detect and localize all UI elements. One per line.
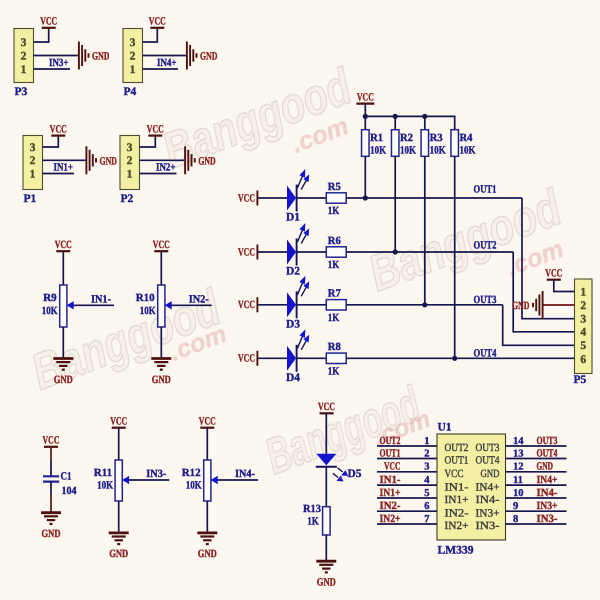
svg-text:3: 3	[580, 314, 586, 326]
wire P4 pin 3 to VCC	[143, 28, 158, 42]
resistor R1 10K	[362, 130, 387, 157]
LED D4	[286, 329, 309, 384]
svg-text:P4: P4	[124, 86, 137, 98]
wire U1 pin 1 (OUT2)	[377, 445, 437, 447]
svg-text:7: 7	[424, 514, 429, 525]
power symbol VCC (R12 top)	[199, 416, 216, 428]
svg-text:GND: GND	[42, 528, 61, 540]
ground symbol GND (P1)	[86, 146, 117, 174]
svg-text:2: 2	[130, 50, 136, 62]
svg-text:VCC: VCC	[384, 461, 401, 473]
wiper arrow of R10 (IN2-)	[165, 301, 212, 309]
connector P3 (3-pin header)	[14, 29, 34, 99]
svg-text:1: 1	[127, 168, 133, 180]
wire D2 to R6	[297, 251, 327, 253]
wire U1 pin 7 (IN2+)	[377, 523, 437, 525]
junction R2/OUT2	[393, 249, 398, 254]
ground symbol GND (R10 bottom)	[151, 359, 171, 386]
power symbol VCC (P4)	[149, 16, 166, 28]
wire R12 bottom to GND	[206, 501, 208, 532]
power symbol VCC (P1)	[50, 123, 67, 135]
svg-text:IN1+: IN1+	[380, 487, 401, 499]
wire D3 to R7	[297, 304, 327, 306]
svg-text:VCC: VCC	[43, 435, 60, 447]
wire bus to R2	[394, 116, 396, 129]
ground symbol GND (C1)	[41, 513, 61, 540]
wire R8 to OUT4 net	[346, 357, 574, 359]
label R11 value	[94, 467, 114, 492]
wire VCC to P5 pin 1	[554, 280, 575, 292]
resistor R4 10K	[451, 130, 476, 157]
junction R4/OUT4	[452, 356, 457, 361]
op-amp comparator U1 LM339 body	[437, 422, 506, 557]
svg-text:R7: R7	[328, 288, 341, 300]
svg-text:OUT3: OUT3	[476, 442, 500, 454]
svg-text:14: 14	[513, 436, 524, 447]
svg-text:IN4+: IN4+	[157, 57, 177, 69]
svg-text:1: 1	[21, 64, 27, 76]
wire OUT1 down to P5 pin 3	[522, 198, 575, 319]
wire U1 pin 14 (OUT3)	[506, 445, 567, 447]
svg-text:1: 1	[424, 436, 429, 447]
wire R9 bottom to GND	[62, 327, 64, 357]
svg-text:IN2+: IN2+	[445, 520, 469, 532]
svg-text:6: 6	[580, 354, 586, 366]
wire P1 pin 1 net IN1+	[43, 173, 75, 175]
svg-text:GND: GND	[481, 468, 500, 480]
svg-text:VCC: VCC	[318, 401, 335, 413]
wire R3 down to OUT3 row	[424, 156, 426, 304]
svg-text:IN3+: IN3+	[476, 507, 500, 519]
wire bus over R1-R4	[365, 116, 454, 129]
svg-text:OUT4: OUT4	[474, 347, 497, 359]
potentiometer R9 body	[60, 285, 67, 327]
wire VCC to D3	[257, 304, 287, 306]
wire U1 pin 9 (IN3+)	[506, 510, 567, 512]
resistor R3 10K	[421, 130, 446, 157]
wire VCC to D4	[257, 357, 287, 359]
wire R13 to GND	[325, 535, 327, 560]
svg-text:1K: 1K	[328, 312, 340, 324]
svg-text:VCC: VCC	[357, 91, 374, 103]
svg-text:GND: GND	[100, 155, 118, 167]
power symbol VCC (R1-R4 bank)	[356, 91, 374, 103]
svg-text:OUT3: OUT3	[474, 294, 497, 306]
wire R7 to OUT3 net	[346, 304, 503, 306]
power symbol VCC (D3 anode)	[238, 297, 257, 312]
wiper arrow of R11 (IN3-)	[122, 476, 169, 484]
svg-text:OUT1: OUT1	[445, 455, 469, 467]
wire U1 pin 10 (IN4-)	[506, 497, 567, 499]
wire C1 to GND	[50, 482, 52, 494]
resistor R2 10K	[391, 130, 416, 157]
svg-text:VCC: VCC	[238, 246, 255, 258]
wire R10 bottom to GND	[160, 327, 162, 357]
LED D1	[286, 169, 309, 224]
svg-text:IN1-: IN1-	[91, 293, 111, 305]
svg-text:OUT2: OUT2	[445, 442, 469, 454]
power symbol VCC (P2)	[147, 123, 164, 135]
svg-text:GND: GND	[512, 300, 530, 312]
svg-text:2: 2	[424, 448, 429, 459]
svg-text:IN1+: IN1+	[445, 494, 469, 506]
LED D3	[286, 276, 309, 331]
junction bus at R3	[422, 114, 427, 119]
wire P3 pin 1 net IN3+	[34, 68, 71, 70]
ground symbol GND (R13)	[316, 561, 336, 588]
label R12 value	[182, 467, 202, 492]
svg-text:1: 1	[130, 64, 136, 76]
svg-text:GND: GND	[200, 51, 218, 63]
svg-text:IN3+: IN3+	[49, 57, 69, 69]
wire R4 down to OUT4 row	[454, 156, 456, 358]
wire bus to R1	[364, 116, 366, 129]
svg-text:IN4+: IN4+	[537, 474, 558, 486]
svg-text:10K: 10K	[400, 145, 416, 157]
connector P1 (3-pin header)	[23, 136, 43, 206]
resistor R5 1K	[326, 181, 346, 217]
svg-text:P3: P3	[15, 86, 28, 98]
svg-text:4: 4	[580, 327, 586, 339]
svg-text:D1: D1	[286, 212, 300, 224]
svg-text:IN4-: IN4-	[235, 468, 255, 480]
svg-text:R13: R13	[303, 503, 321, 515]
svg-text:9: 9	[513, 501, 518, 512]
svg-text:VCC: VCC	[147, 123, 164, 135]
svg-text:R10: R10	[136, 292, 155, 304]
svg-text:2: 2	[21, 50, 27, 62]
potentiometer R11 body	[115, 460, 122, 501]
svg-text:11: 11	[513, 475, 523, 486]
svg-text:P1: P1	[24, 193, 37, 205]
svg-text:IN1-: IN1-	[445, 481, 469, 493]
svg-text:GND: GND	[92, 51, 110, 63]
LED D2	[286, 223, 309, 278]
wire VCC to R10 top	[160, 251, 162, 285]
svg-text:VCC: VCC	[545, 268, 562, 280]
svg-text:IN4-: IN4-	[537, 487, 558, 499]
resistor R13 1K	[303, 503, 330, 535]
wiper arrow of R12 (IN4-)	[211, 476, 258, 484]
svg-text:1: 1	[580, 286, 586, 298]
power symbol VCC (D5)	[318, 401, 335, 413]
wire P1 pin 2 to GND	[43, 159, 86, 161]
svg-text:3: 3	[127, 142, 133, 154]
svg-text:10K: 10K	[370, 145, 386, 157]
svg-text:13: 13	[513, 448, 524, 459]
svg-text:3: 3	[21, 37, 27, 49]
wire R2 down to OUT2 row	[394, 156, 396, 252]
svg-text:2: 2	[127, 155, 133, 167]
svg-text:IN3+: IN3+	[537, 500, 558, 512]
svg-text:6: 6	[424, 501, 429, 512]
wire U1 pin 6 (IN2-)	[377, 510, 437, 512]
svg-text:D5: D5	[348, 468, 362, 480]
svg-text:IN1+: IN1+	[54, 162, 74, 174]
wire D4 to R8	[297, 357, 327, 359]
svg-text:VCC: VCC	[40, 16, 57, 28]
power symbol VCC (C1)	[43, 435, 60, 447]
svg-text:2: 2	[580, 300, 586, 312]
svg-text:GND: GND	[198, 548, 217, 560]
svg-text:IN3-: IN3-	[476, 520, 500, 532]
svg-text:VCC: VCC	[110, 416, 127, 428]
svg-text:3: 3	[130, 37, 136, 49]
svg-text:R6: R6	[328, 235, 341, 247]
wire P2 pin 2 to GND	[140, 159, 185, 161]
power symbol VCC (R11 top)	[110, 416, 127, 428]
svg-text:GND: GND	[537, 461, 554, 473]
svg-text:P2: P2	[121, 193, 134, 205]
svg-text:10K: 10K	[460, 145, 476, 157]
connector P4 (3-pin header)	[123, 29, 143, 99]
capacitor C1 104	[43, 471, 77, 498]
wire U1 pin 8 (IN3-)	[506, 523, 567, 525]
svg-text:OUT4: OUT4	[476, 455, 500, 467]
ground symbol GND (R9 bottom)	[53, 359, 73, 386]
wiper arrow of R9 (IN1-)	[67, 301, 114, 309]
power symbol VCC (D2 anode)	[238, 245, 257, 260]
svg-text:4: 4	[424, 475, 430, 486]
label R10 value	[136, 292, 156, 317]
wire P3 pin 2 to GND	[34, 55, 79, 57]
svg-text:5: 5	[424, 488, 429, 499]
svg-text:OUT1: OUT1	[474, 183, 497, 195]
svg-text:10K: 10K	[140, 305, 156, 317]
power symbol VCC (D4 anode)	[238, 351, 257, 366]
svg-text:D2: D2	[286, 266, 300, 278]
power symbol VCC (P3)	[40, 16, 57, 28]
wire U1 pin 11 (IN4+)	[506, 484, 567, 486]
svg-text:10K: 10K	[42, 305, 58, 317]
svg-text:10K: 10K	[186, 480, 202, 492]
svg-text:P5: P5	[574, 374, 587, 386]
wire R6 to OUT2 net	[346, 251, 513, 253]
potentiometer R10 body	[158, 285, 165, 327]
wire VCC to C1	[50, 447, 52, 460]
wire P2 pin 1 net IN2+	[140, 173, 177, 175]
resistor R6 1K	[326, 235, 346, 271]
svg-text:1: 1	[30, 168, 36, 180]
svg-text:IN4-: IN4-	[476, 494, 500, 506]
wire OUT3 down to P5 pin 5	[503, 305, 575, 346]
svg-text:GND: GND	[317, 577, 336, 589]
svg-text:R3: R3	[430, 132, 443, 144]
LED D5	[316, 454, 362, 482]
wire R1 down to OUT1 row	[364, 156, 366, 198]
wire P4 pin 2 to GND	[143, 55, 187, 57]
resistor R7 1K	[326, 288, 346, 324]
potentiometer R12 body	[204, 460, 211, 501]
resistor R8 1K	[326, 341, 346, 377]
svg-text:VCC: VCC	[153, 239, 170, 251]
svg-text:10: 10	[513, 488, 524, 499]
junction R3/OUT3	[422, 302, 427, 307]
svg-text:OUT1: OUT1	[380, 447, 401, 459]
label R9 value	[42, 292, 58, 317]
svg-text:IN2-: IN2-	[380, 500, 401, 512]
svg-text:U1: U1	[438, 422, 452, 434]
wire U1 pin 2 (OUT1)	[377, 458, 437, 460]
wire D1 to R5	[297, 197, 327, 199]
ground symbol GND (R11 bottom)	[109, 533, 129, 560]
svg-text:1K: 1K	[307, 515, 319, 527]
power symbol VCC (R9 top)	[55, 239, 72, 251]
svg-text:1K: 1K	[328, 366, 340, 378]
svg-text:104: 104	[62, 485, 77, 497]
svg-text:D4: D4	[286, 372, 300, 384]
svg-text:LM339: LM339	[438, 545, 474, 557]
svg-text:GND: GND	[152, 374, 171, 386]
svg-text:10K: 10K	[97, 480, 113, 492]
svg-text:IN3-: IN3-	[537, 513, 558, 525]
svg-text:IN2-: IN2-	[189, 293, 209, 305]
svg-text:R12: R12	[182, 467, 201, 479]
svg-text:OUT2: OUT2	[474, 240, 497, 252]
wire OUT2 down to P5 pin 4	[513, 252, 574, 332]
svg-text:IN3-: IN3-	[146, 468, 166, 480]
wire D5 to R13	[325, 467, 327, 507]
svg-text:GND: GND	[198, 155, 216, 167]
wire U1 pin 12 (GND)	[506, 471, 567, 473]
power symbol VCC (D1 anode)	[238, 191, 257, 206]
wire VCC to R1-R4 bus	[364, 104, 366, 117]
svg-text:IN2-: IN2-	[445, 507, 469, 519]
wire P4 pin 1 net IN4+	[143, 68, 179, 70]
svg-text:R5: R5	[328, 181, 341, 193]
svg-text:GND: GND	[54, 374, 73, 386]
wire U1 pin 5 (IN1+)	[377, 497, 437, 499]
wire bus to R3	[424, 116, 426, 129]
svg-text:R11: R11	[94, 467, 112, 479]
svg-text:VCC: VCC	[445, 468, 464, 480]
svg-text:3: 3	[424, 462, 429, 473]
svg-text:R9: R9	[43, 292, 57, 304]
ground symbol GND (P3)	[79, 42, 110, 70]
connector P2 (3-pin header)	[120, 136, 140, 206]
svg-text:VCC: VCC	[238, 192, 255, 204]
svg-text:VCC: VCC	[238, 299, 255, 311]
wire U1 pin 4 (IN1-)	[377, 484, 437, 486]
svg-text:R8: R8	[328, 341, 341, 353]
power symbol VCC (R10 top)	[153, 239, 170, 251]
ground symbol GND (P4)	[187, 42, 218, 70]
wire P1 pin 3 to VCC	[43, 136, 59, 147]
ground symbol GND (P5)	[512, 291, 543, 319]
wire U1 pin 13 (OUT4)	[506, 458, 567, 460]
svg-text:2: 2	[30, 155, 36, 167]
svg-text:GND: GND	[109, 548, 128, 560]
svg-text:1K: 1K	[328, 205, 340, 217]
junction R1/OUT1	[363, 195, 368, 200]
svg-text:3: 3	[30, 142, 36, 154]
svg-text:IN2+: IN2+	[380, 513, 401, 525]
svg-text:OUT2: OUT2	[380, 435, 401, 447]
svg-text:VCC: VCC	[199, 416, 216, 428]
wire GND to P5 pin 2	[543, 304, 575, 306]
ground symbol GND (R12 bottom)	[197, 533, 217, 560]
svg-text:D3: D3	[286, 318, 300, 330]
wire VCC to R11 top	[118, 428, 120, 460]
wire U1 pin 3 (VCC)	[377, 471, 437, 473]
svg-text:OUT3: OUT3	[537, 435, 558, 447]
svg-text:1K: 1K	[328, 259, 340, 271]
svg-text:5: 5	[580, 340, 586, 352]
connector P5 (6-pin header)	[574, 279, 593, 386]
svg-text:R4: R4	[460, 132, 473, 144]
svg-text:8: 8	[513, 514, 518, 525]
junction bus at R1	[363, 114, 368, 119]
svg-text:IN2+: IN2+	[156, 162, 176, 174]
svg-text:R2: R2	[400, 132, 413, 144]
wire VCC to D5	[325, 413, 327, 454]
svg-text:10K: 10K	[430, 145, 446, 157]
wire P2 pin 3 to VCC	[140, 136, 156, 147]
svg-text:IN1-: IN1-	[380, 474, 401, 486]
wire R11 bottom to GND	[118, 501, 120, 532]
wire VCC to D1	[257, 197, 287, 199]
svg-text:VCC: VCC	[50, 123, 67, 135]
junction bus at R2	[393, 114, 398, 119]
svg-text:OUT4: OUT4	[537, 447, 558, 459]
power symbol VCC (P5)	[545, 268, 562, 280]
svg-text:VCC: VCC	[55, 239, 72, 251]
wire P3 pin 3 to VCC	[34, 28, 49, 42]
svg-text:VCC: VCC	[238, 353, 255, 365]
wire R5 to OUT1 net	[346, 197, 522, 199]
svg-text:C1: C1	[61, 471, 72, 483]
svg-text:IN4+: IN4+	[476, 481, 500, 493]
svg-text:R1: R1	[370, 132, 383, 144]
wire VCC to D2	[257, 251, 287, 253]
wire VCC to R12 top	[206, 428, 208, 460]
svg-text:12: 12	[513, 462, 524, 473]
wire VCC to R9 top	[62, 251, 64, 285]
ground symbol GND (P2)	[185, 146, 216, 174]
svg-text:VCC: VCC	[149, 16, 166, 28]
